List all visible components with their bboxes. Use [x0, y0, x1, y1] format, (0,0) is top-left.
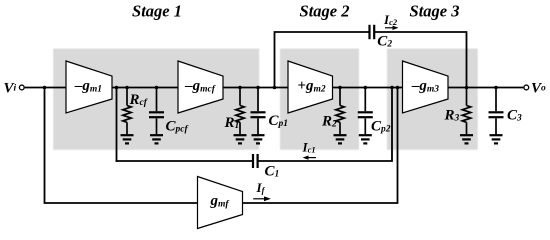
wire: gmf output right and up to gm3 input node — [243, 88, 398, 204]
op-amp gmf (feedforward) — [198, 177, 243, 229]
resistor Rcf — [123, 88, 131, 135]
svg-text:Stage 1: Stage 1 — [132, 2, 182, 21]
capacitor Cpcf — [149, 88, 164, 135]
ground under Rcf — [121, 135, 134, 143]
ground under R3 — [460, 135, 473, 143]
ground under R2 — [334, 135, 347, 143]
ground under Cp2 — [359, 135, 372, 143]
wire: feedforward from Vi node down and right to gmf input — [45, 88, 198, 204]
wire: C1 line left segment — [116, 160, 253, 162]
svg-text:C1: C1 — [265, 164, 280, 180]
svg-text:Vi: Vi — [4, 81, 17, 97]
output terminal Vo — [524, 85, 529, 90]
input terminal Vi — [19, 85, 24, 90]
junction node dots on main wire — [43, 86, 498, 90]
svg-text:Stage 2: Stage 2 — [300, 2, 350, 21]
capacitor Cp2 — [358, 88, 373, 135]
op-amp gm2 — [288, 61, 333, 113]
capacitor Cp1 — [251, 88, 266, 135]
wire: tap down from gm1 output node to C1 line — [116, 88, 118, 162]
svg-text:If: If — [256, 180, 266, 195]
svg-text:Vo: Vo — [531, 81, 546, 97]
wire: tap up from gm2 input node to C2 line (left half) — [275, 32, 370, 88]
wire: gm2 output to gm3 input — [333, 87, 403, 89]
wire: Vi input to gm1 — [25, 87, 66, 89]
op-amp gmcf — [178, 61, 223, 113]
capacitor C2 (in feedback line) — [370, 25, 375, 39]
wire: gm3 output to Vo terminal — [448, 87, 523, 89]
ground under Cp1 — [252, 135, 265, 143]
capacitor C3 — [489, 88, 504, 135]
ground under C3 — [490, 135, 503, 143]
stage 1 shaded box — [53, 49, 259, 150]
svg-text:Ic2: Ic2 — [383, 12, 398, 27]
ground under R1 — [234, 135, 247, 143]
op-amp gm3 — [403, 61, 449, 113]
resistor R2 — [336, 88, 344, 135]
svg-text:C2: C2 — [377, 34, 392, 50]
svg-text:Stage 3: Stage 3 — [410, 2, 460, 21]
resistor R1 — [236, 88, 244, 135]
wire: gmcf output to gm2 input — [223, 87, 288, 89]
wire: C1 line right segment up to gm3 input node — [258, 88, 392, 162]
capacitor C1 (in feedback line) — [253, 154, 258, 168]
current label Ic1 with arrow — [302, 139, 317, 159]
stage 2 shaded box — [280, 49, 359, 150]
stage 3 shaded box — [387, 49, 478, 150]
wire: gm1 output to gmcf input — [112, 87, 178, 89]
wire: C2 line right half down to output node — [374, 32, 466, 88]
current label If with arrow — [253, 180, 271, 201]
ground under Cpcf — [150, 135, 163, 143]
svg-text:C3: C3 — [507, 108, 522, 124]
resistor R3 — [462, 88, 470, 135]
current label Ic2 with arrow — [383, 12, 399, 30]
op-amp gm1 — [66, 61, 112, 113]
